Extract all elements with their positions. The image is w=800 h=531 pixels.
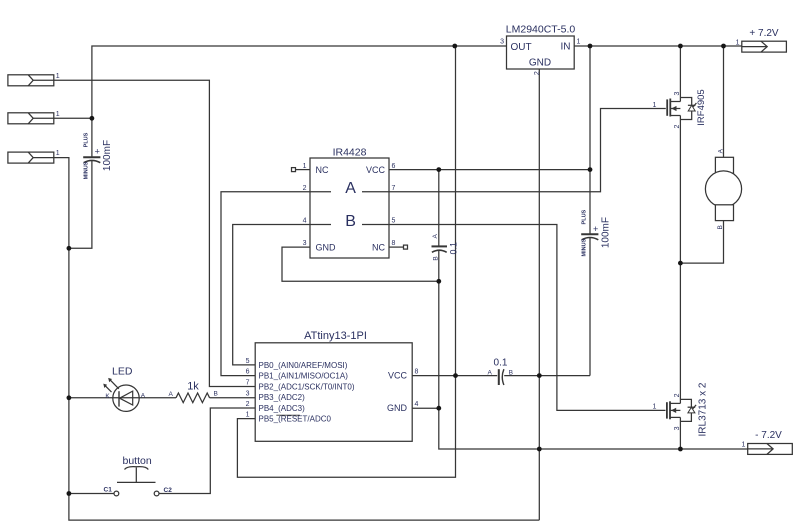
node 5V rail / OUT (452, 44, 457, 49)
svg-text:7: 7 (392, 185, 396, 192)
connector +7.2V (736, 28, 787, 52)
internal stubs channel B (310, 224, 331, 226)
svg-text:A: A (432, 233, 439, 238)
svg-text:PB0_(AIN0/AREF/MOSI): PB0_(AIN0/AREF/MOSI) (259, 361, 348, 370)
connector X3 (8, 150, 60, 163)
capacitor 0.1 vertical on rail P (432, 233, 459, 260)
wire IR4428 pin5 B-out to IRL3713 gate (389, 225, 666, 411)
connector X1 (8, 73, 60, 86)
wire motor B to half-bridge node (680, 221, 723, 264)
svg-text:C1: C1 (104, 487, 113, 494)
node button row at left rail (67, 491, 72, 496)
svg-text:IN: IN (561, 42, 571, 53)
capacitor C 100mF left (83, 132, 113, 179)
wire IR4428 VCC row pin6 (389, 169, 590, 171)
svg-text:VCC: VCC (388, 371, 408, 381)
svg-text:100mF: 100mF (600, 217, 611, 248)
svg-text:PB5_(RESET/ADC0: PB5_(RESET/ADC0 (259, 415, 332, 424)
svg-text:LED: LED (112, 366, 133, 378)
pushbutton S1 (104, 455, 173, 496)
wire rail P GND side down to -rail (439, 250, 748, 449)
svg-text:+: + (593, 224, 598, 234)
internal stubs channel A (310, 191, 331, 193)
node ATtiny GND at rail P (436, 406, 441, 411)
svg-text:LM2940CT-5.0: LM2940CT-5.0 (506, 24, 576, 36)
wire IRL3713 source to minus rail (679, 417, 681, 449)
svg-text:1: 1 (736, 39, 740, 46)
node IR4428 VCC at 7.2V rail (588, 167, 593, 172)
svg-text:B: B (717, 225, 724, 229)
svg-text:A: A (169, 391, 174, 398)
svg-text:1: 1 (653, 102, 657, 109)
svg-text:1: 1 (577, 39, 581, 46)
wire LM2940 GND rail (538, 69, 540, 520)
svg-text:5: 5 (246, 358, 250, 365)
svg-text:+ 7.2V: + 7.2V (749, 28, 779, 39)
svg-text:1: 1 (246, 412, 250, 419)
node LED row at left rail (67, 395, 72, 400)
wire IR4428 pin3 GND return (282, 247, 439, 281)
svg-text:3: 3 (674, 426, 681, 430)
svg-text:1: 1 (741, 442, 745, 449)
node motor A at top rail (721, 44, 726, 49)
node X2 to 5V rail (90, 116, 95, 121)
svg-text:OUT: OUT (511, 42, 532, 53)
svg-text:3: 3 (246, 390, 250, 397)
svg-text:IR4428: IR4428 (333, 147, 367, 159)
svg-text:B: B (432, 256, 439, 260)
wire 5V rail Q down to ATtiny VCC and PB5 reset pullup (237, 46, 455, 477)
svg-text:2: 2 (674, 125, 681, 129)
svg-text:IRL3713 x 2: IRL3713 x 2 (698, 382, 709, 436)
node Q2 source at minus rail (678, 447, 683, 452)
wire IRF4905 source down to motor B node (679, 116, 681, 404)
wire 100mF C minus to left rail (69, 161, 92, 249)
svg-text:3: 3 (303, 240, 307, 247)
node IR4428 GND at rail P (436, 279, 441, 284)
wire LED anode to resistor (139, 397, 176, 399)
connector X2 (8, 111, 60, 124)
motor M1 (705, 148, 741, 229)
svg-text:K: K (105, 393, 110, 400)
svg-text:+: + (95, 147, 100, 157)
svg-text:PB3_(ADC2): PB3_(ADC2) (259, 393, 306, 402)
svg-text:IRF4905: IRF4905 (696, 89, 707, 125)
wire connector X1 to PB2 (54, 80, 255, 386)
pin 8 NC stub (389, 246, 404, 248)
overline RESET (276, 414, 300, 416)
svg-text:3: 3 (674, 92, 681, 96)
svg-text:A: A (345, 180, 356, 197)
node Q1 source at top rail (678, 44, 683, 49)
svg-text:A: A (141, 393, 146, 400)
node motor B half-bridge (678, 261, 683, 266)
svg-text:B: B (345, 213, 356, 230)
svg-text:GND: GND (316, 243, 337, 253)
svg-text:6: 6 (392, 163, 396, 170)
wire ATtiny VCC row right of 0.1 cap (504, 375, 590, 377)
svg-text:VCC: VCC (366, 165, 386, 175)
wire rail P VCC-side to 0.1 cap (438, 170, 440, 247)
svg-text:PB4_(ADC3): PB4_(ADC3) (259, 404, 306, 413)
svg-text:MINUS: MINUS (84, 161, 90, 179)
node VCC row at LM GND rail (537, 373, 542, 378)
svg-text:0.1: 0.1 (448, 242, 458, 255)
regulator U3 LM2940CT-5.0 (500, 24, 580, 76)
wire IR4428 pin7 A-out to IRF4905 gate (389, 109, 666, 192)
svg-text:8: 8 (415, 369, 419, 376)
svg-text:5: 5 (392, 218, 396, 225)
svg-text:4: 4 (303, 218, 307, 225)
svg-text:3: 3 (500, 39, 504, 46)
wire IR4428 pin2 A-in to PB1 (221, 192, 310, 376)
svg-text:1: 1 (56, 73, 60, 80)
svg-text:1: 1 (303, 163, 307, 170)
body diode D of Q2 (680, 399, 691, 407)
svg-text:NC: NC (316, 165, 329, 175)
wire connector X2 to 5V rail (54, 117, 92, 119)
svg-text:C2: C2 (164, 487, 173, 494)
wire LED resistor row to PB3 (69, 397, 113, 399)
svg-text:2: 2 (246, 401, 250, 408)
node ATtiny VCC at rail Q (453, 373, 458, 378)
wire top 5V rail left (OUT net) (92, 46, 507, 157)
svg-text:1: 1 (56, 111, 60, 118)
svg-text:7: 7 (246, 380, 250, 387)
resistor R1 1k (169, 381, 218, 403)
svg-text:PB1_(AIN1/MISO/OC1A): PB1_(AIN1/MISO/OC1A) (259, 372, 349, 381)
svg-text:B: B (509, 370, 513, 377)
wire 100mF C2 minus down to VCC row end (589, 238, 591, 376)
svg-text:B: B (214, 391, 218, 398)
svg-text:0.1: 0.1 (494, 358, 508, 369)
svg-text:6: 6 (246, 369, 250, 376)
wire ATtiny VCC row (412, 375, 497, 377)
svg-text:NC: NC (372, 243, 385, 253)
LED D1 (103, 366, 146, 412)
svg-text:PLUS: PLUS (84, 132, 90, 147)
svg-text:- 7.2V: - 7.2V (755, 430, 782, 441)
svg-text:8: 8 (392, 240, 396, 247)
svg-text:A: A (717, 148, 724, 153)
svg-text:1: 1 (653, 404, 657, 411)
pin 1 NC stub (296, 169, 311, 171)
wire IRF4905 drain rail from top (679, 46, 681, 102)
wire left rail to button C1 (69, 493, 114, 495)
svg-text:PLUS: PLUS (582, 209, 588, 224)
wire resistor B to PB3 (210, 397, 256, 399)
wire PB4 to button C2 (159, 408, 255, 494)
connector -7.2V (741, 430, 792, 454)
mcu U1 ATtiny13-1PI (246, 330, 419, 442)
svg-text:1: 1 (56, 150, 60, 157)
wire IR4428 pin4 B-in to PB0 (233, 225, 310, 365)
node IN rail (588, 44, 593, 49)
svg-text:GND: GND (387, 403, 408, 413)
svg-text:2: 2 (303, 185, 307, 192)
svg-text:A: A (488, 370, 493, 377)
wire ATtiny GND row (412, 407, 439, 409)
wire motor A to top rail (723, 46, 725, 157)
svg-text:4: 4 (415, 401, 419, 408)
svg-text:ATtiny13-1PI: ATtiny13-1PI (304, 330, 367, 342)
svg-text:2: 2 (534, 71, 541, 75)
transistor Q1 IRF4905 P-MOSFET (653, 89, 708, 128)
capacitor C 100mF right (581, 209, 611, 256)
node LM GND rail at minus rail (537, 447, 542, 452)
transistor Q2 IRL3713 N-MOSFET (653, 382, 709, 436)
svg-text:MINUS: MINUS (582, 238, 588, 256)
node IR4428 VCC at rail P (436, 167, 441, 172)
wire 7.2V rail to 100mF C2 plus (589, 46, 591, 234)
capacitor 0.1 horizontal on VCC row (488, 358, 513, 386)
svg-text:button: button (123, 455, 152, 467)
node cap minus to left rail (67, 246, 72, 251)
svg-text:2: 2 (674, 393, 681, 397)
body diode D of Q1 (680, 98, 691, 106)
gate-driver U2 IR4428 (292, 147, 408, 259)
svg-text:100mF: 100mF (102, 140, 113, 171)
svg-text:GND: GND (529, 58, 551, 69)
wire top rail right (IN net to +7.2V) (574, 45, 742, 47)
svg-text:PB2_(ADC1/SCK/T0/INT0): PB2_(ADC1/SCK/T0/INT0) (259, 382, 355, 391)
svg-text:1k: 1k (187, 381, 199, 393)
wire connector X3 to left ground rail (54, 158, 540, 520)
